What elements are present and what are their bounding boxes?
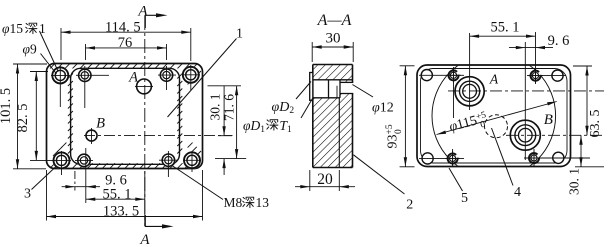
svg-text:A: A [489,72,499,87]
leader 2 [353,155,404,194]
section arrow A bottom [145,215,166,226]
leader 1 [168,39,237,118]
svg-text:2: 2 [406,198,413,213]
leader and label phi15 deep 1 [40,31,59,71]
svg-text:A: A [128,70,138,86]
outer outline [47,64,203,169]
svg-text:101. 5: 101. 5 [0,88,14,124]
dim 93 +5/0 left of right view [400,65,415,67]
dim 9.6 bottom [74,171,76,191]
left flange of stepped hole [310,73,313,101]
svg-text:63. 5: 63. 5 [588,110,603,138]
boss hole B [510,120,540,150]
dim 71.6 right of left view [236,86,238,159]
M8 tapped hole bottom-right [162,154,174,166]
boss hole A [455,77,484,106]
leader and label phi9 [41,54,57,75]
svg-text:55. 1: 55. 1 [491,20,520,36]
svg-text:φ15: φ15 [2,21,23,36]
tapped hole [529,153,539,163]
svg-text:1: 1 [39,21,46,36]
tapped hole [447,153,457,163]
svg-text:20: 20 [317,171,333,188]
svg-text:55. 1: 55. 1 [103,186,132,202]
counterbore hole phi15/phi9 top-left [52,67,68,83]
counterbore hole bottom-left [54,152,70,168]
tapped hole [448,70,458,80]
label phiD1 deep T1 with leader [301,99,313,119]
M8 tapped hole top-left [79,69,91,81]
dim 114.5 top [60,28,62,60]
svg-text:82. 5: 82. 5 [15,104,31,133]
dim 76 top [85,44,87,60]
wall hatch ticks corner wedges [53,71,58,76]
wall hatch ticks top band [50,63,55,68]
svg-text:30. 1: 30. 1 [567,168,582,195]
section hatching [313,65,353,168]
inner edge line in lower part [338,98,340,168]
svg-text:M8: M8 [224,195,243,210]
leader 5 [449,168,463,191]
long centerline through hole A [448,90,604,92]
dim 55.1 top right view [470,35,536,37]
tapped hole [530,70,540,80]
svg-text:φ9: φ9 [23,42,37,57]
dim 9.6 top right view [509,47,553,49]
outer outline [417,65,571,167]
svg-text:114. 5: 114. 5 [105,20,141,36]
svg-text:3: 3 [24,187,31,202]
svg-text:76: 76 [118,35,133,51]
dim 101.5 left [13,63,47,65]
pair centerlines [419,74,464,76]
dim 30.1 right of left view [208,85,242,87]
svg-text:13: 13 [256,195,270,210]
big circle phi115 cavity [432,54,556,178]
section cutting line A-A (vertical through hole A) [144,16,146,226]
svg-text:B: B [544,112,553,128]
counterbore hole top-right [183,67,199,83]
svg-text:A: A [139,232,150,247]
counterbore hole bottom-right [184,152,200,168]
hole knockouts [51,66,69,84]
hole B [86,130,97,141]
dim 55.1 bottom [144,171,146,226]
leader 3 [32,167,57,190]
wall hatch ticks bottom band [50,163,55,168]
leader 4 [492,128,514,186]
svg-text:30: 30 [326,31,341,47]
label phiD2 with leader [296,82,311,100]
svg-text:5: 5 [461,191,468,206]
svg-text:9. 6: 9. 6 [548,33,570,49]
hole A (phi12 stepped hole position) [137,79,152,94]
inner cavity outline [71,68,180,164]
corner plain holes [421,70,432,81]
svg-text:A: A [137,3,148,19]
svg-text:A—A: A—A [317,12,352,29]
M8 tapped hole bottom-left [78,154,90,166]
dim 63.5 right side [573,65,592,67]
centerline through B [84,135,233,137]
wall hatch ticks left inner edge [68,74,73,79]
svg-text:φ12: φ12 [372,101,394,116]
M8 tapped hole top-right [160,69,172,81]
svg-text:133. 5: 133. 5 [103,203,139,219]
dim 133.5 bottom [46,170,48,221]
leader M8 deep 13 [172,166,223,200]
dim phi115 +5/0 diagonal [437,102,557,135]
dim 30 top of section [311,42,313,62]
svg-text:4: 4 [514,185,521,200]
label phi12 with leader [352,85,373,98]
svg-text:1: 1 [236,27,243,42]
svg-text:B: B [96,116,105,132]
section arrow A top [145,15,160,28]
dim 82.5 left [30,71,48,73]
stepped hole phiD2 / phiD1 / phi12 [313,79,353,81]
svg-text:30. 1: 30. 1 [208,94,223,121]
hidden(dashed) circle, leader 4 target [485,115,508,138]
dim 20 bottom of section [309,170,311,191]
centerline through hole B [506,134,604,136]
svg-text:71. 6: 71. 6 [222,94,237,121]
dim 30.1 right side [575,166,604,168]
wall hatch ticks right inner edge [177,74,182,79]
section outline [313,64,353,66]
inner offset edge [421,69,568,164]
svg-text:0: 0 [394,129,404,134]
